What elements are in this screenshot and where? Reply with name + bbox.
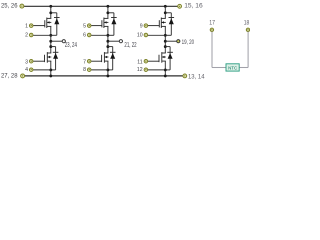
svg-text:25, 26: 25, 26: [1, 3, 18, 10]
svg-text:27, 28: 27, 28: [1, 73, 18, 80]
svg-text:9: 9: [140, 23, 143, 29]
svg-text:7: 7: [83, 59, 86, 65]
svg-text:6: 6: [83, 32, 86, 38]
svg-text:13, 14: 13, 14: [188, 74, 205, 81]
svg-text:23, 24: 23, 24: [65, 42, 77, 49]
svg-text:11: 11: [137, 59, 142, 65]
svg-text:15, 16: 15, 16: [184, 3, 203, 10]
svg-text:19, 20: 19, 20: [182, 40, 195, 46]
svg-text:5: 5: [83, 23, 86, 29]
svg-text:NTC: NTC: [228, 65, 238, 70]
svg-text:4: 4: [25, 67, 28, 73]
svg-text:3: 3: [25, 59, 28, 65]
svg-text:12: 12: [137, 67, 143, 73]
svg-text:2: 2: [25, 32, 28, 38]
svg-text:18: 18: [244, 19, 250, 26]
svg-text:17: 17: [209, 19, 215, 26]
svg-text:8: 8: [83, 67, 86, 73]
svg-text:1: 1: [25, 23, 28, 29]
svg-text:21, 22: 21, 22: [124, 42, 136, 49]
svg-text:10: 10: [137, 32, 143, 38]
